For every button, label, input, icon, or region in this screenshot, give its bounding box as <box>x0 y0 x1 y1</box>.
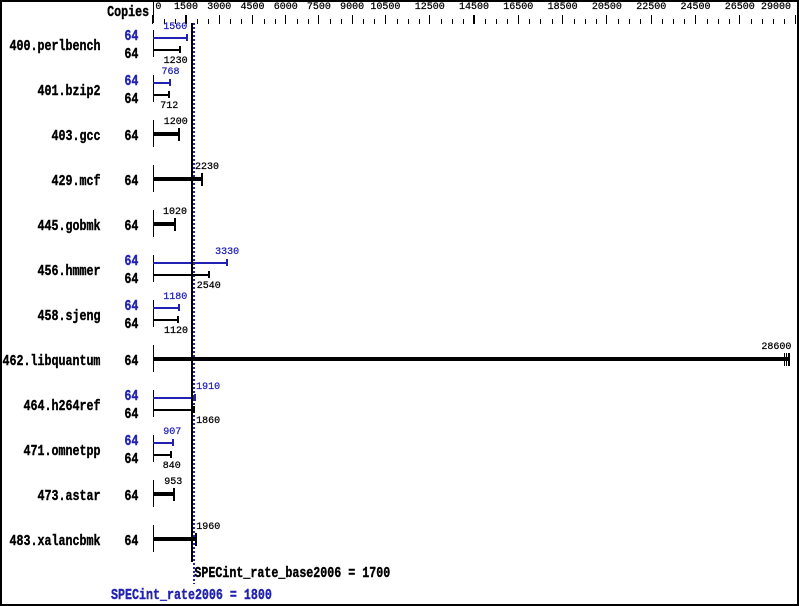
x-axis major tick 26500 <box>739 15 740 24</box>
x-axis major tick 7500 <box>318 15 319 24</box>
base value label 840 <box>163 461 181 472</box>
x-axis major tick 20500 <box>606 15 607 24</box>
value label 1020 <box>163 207 187 218</box>
bar bracket 483.xalancbmk <box>153 525 154 552</box>
base bar 2230 429.mcf <box>153 177 202 181</box>
base bar 1230 400.perlbench <box>153 49 180 51</box>
bar bracket 401.bzip2 <box>153 75 154 102</box>
benchmark label 471.omnetpp <box>24 442 101 460</box>
peak bar 907 471.omnetpp <box>153 442 173 444</box>
copies 64 462.libquantum <box>124 352 138 370</box>
copies 64 (base row) 400.perlbench <box>124 45 138 63</box>
x-axis major tick 24500 <box>695 15 696 24</box>
copies 64 473.astar <box>124 487 138 505</box>
x-axis major tick 0 <box>152 15 153 24</box>
peak bar 1910 464.h264ref <box>153 397 195 399</box>
x-axis major tick 29000 <box>795 15 796 24</box>
base bar 712 401.bzip2 <box>153 94 169 96</box>
bar bracket 471.omnetpp <box>153 435 154 462</box>
base value label 712 <box>160 101 178 112</box>
benchmark label 456.hmmer <box>38 262 101 280</box>
peak value label 768 <box>162 67 180 78</box>
copies 64 (base row) 458.sjeng <box>124 315 138 333</box>
value label 953 <box>164 477 182 488</box>
reference line SPECint_rate_base2006 = 1700 (black solid) <box>191 23 193 562</box>
bar bracket 403.gcc <box>153 120 154 147</box>
benchmark label 401.bzip2 <box>38 82 101 100</box>
x-axis major tick 3000 <box>219 15 220 24</box>
bar bracket 458.sjeng <box>153 300 154 327</box>
peak bar 768 401.bzip2 <box>153 82 170 84</box>
x-axis major tick 18500 <box>562 15 563 24</box>
benchmark label 464.h264ref <box>24 397 101 415</box>
score text SPECint_rate2006 = 1800 <box>111 586 272 604</box>
base bar 953 473.astar <box>153 492 174 496</box>
x-axis major tick 12500 <box>429 15 430 24</box>
peak bar 1560 400.perlbench <box>153 37 187 39</box>
peak value label 907 <box>163 427 181 438</box>
peak bar 1180 458.sjeng <box>153 307 179 309</box>
bar bracket 445.gobmk <box>153 210 154 237</box>
base bar 1200 403.gcc <box>153 132 179 136</box>
base bar 1120 458.sjeng <box>153 319 178 321</box>
x-axis major tick 4500 <box>252 15 253 24</box>
peak bar 3330 456.hmmer <box>153 262 227 264</box>
x-axis major tick 6000 <box>285 15 286 24</box>
x-axis major tick 16500 <box>518 15 519 24</box>
peak value label 3330 <box>215 247 239 258</box>
x-axis major tick 9000 <box>352 15 353 24</box>
value label 28600 <box>761 342 791 353</box>
copies 64 (peak row) 458.sjeng <box>124 297 138 315</box>
value label 2230 <box>195 162 219 173</box>
base value label 2540 <box>197 281 221 292</box>
peak value label 1910 <box>196 382 220 393</box>
x-axis major tick 22500 <box>651 15 652 24</box>
x-axis minor ticks <box>164 19 165 24</box>
bar bracket 456.hmmer <box>153 255 154 282</box>
copies 64 429.mcf <box>124 172 138 190</box>
benchmark label 473.astar <box>38 487 101 505</box>
x-axis major tick 14500 <box>473 15 474 24</box>
base value label 1120 <box>164 326 188 337</box>
column separator line <box>153 0 154 23</box>
copies 64 403.gcc <box>124 127 138 145</box>
base bar 1960 483.xalancbmk <box>153 537 196 541</box>
base value label 1230 <box>164 56 188 67</box>
bar bracket 462.libquantum <box>153 345 154 372</box>
benchmark label 403.gcc <box>52 127 101 145</box>
copies 64 (peak row) 400.perlbench <box>124 27 138 45</box>
score text SPECint_rate_base2006 = 1700 <box>194 564 390 582</box>
copies 64 (peak row) 401.bzip2 <box>124 72 138 90</box>
bar bracket 400.perlbench <box>153 30 154 57</box>
copies 64 (base row) 471.omnetpp <box>124 450 138 468</box>
base bar 1860 464.h264ref <box>153 409 194 411</box>
base bar 2540 456.hmmer <box>153 274 209 276</box>
value label 1200 <box>164 117 188 128</box>
value label 1960 <box>196 522 220 533</box>
copies 64 (peak row) 471.omnetpp <box>124 432 138 450</box>
base bar 840 471.omnetpp <box>153 454 171 456</box>
base bar 1020 445.gobmk <box>153 222 175 226</box>
column header Copies <box>107 3 149 21</box>
benchmark label 400.perlbench <box>10 37 101 55</box>
base value label 1860 <box>196 416 220 427</box>
benchmark label 445.gobmk <box>38 217 101 235</box>
benchmark label 458.sjeng <box>38 307 101 325</box>
copies 64 (peak row) 456.hmmer <box>124 252 138 270</box>
peak value label 1180 <box>163 292 187 303</box>
x-axis major tick 10500 <box>385 15 386 24</box>
x-axis major tick 1500 <box>185 15 186 24</box>
bar bracket 473.astar <box>153 480 154 507</box>
peak value label 1560 <box>163 22 187 33</box>
copies 64 (base row) 401.bzip2 <box>124 90 138 108</box>
copies 64 (peak row) 464.h264ref <box>124 387 138 405</box>
benchmark label 462.libquantum <box>3 352 101 370</box>
copies 64 (base row) 464.h264ref <box>124 405 138 423</box>
copies 64 445.gobmk <box>124 217 138 235</box>
bar bracket 464.h264ref <box>153 390 154 417</box>
benchmark label 429.mcf <box>52 172 101 190</box>
copies 64 483.xalancbmk <box>124 532 138 550</box>
reference line SPECint_rate2006 = 1800 (blue dashed) <box>193 23 195 584</box>
base bar 28600 462.libquantum <box>153 357 789 361</box>
benchmark label 483.xalancbmk <box>10 532 101 550</box>
bar bracket 429.mcf <box>153 165 154 192</box>
copies 64 (base row) 456.hmmer <box>124 270 138 288</box>
